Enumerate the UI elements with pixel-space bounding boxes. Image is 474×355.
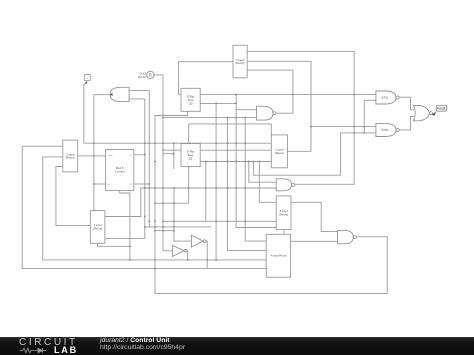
wire branch to counter input 2 xyxy=(94,183,106,185)
subcircuit B1 3 input (Recnt) xyxy=(233,45,247,78)
wire G1 input B to B6 right 2 xyxy=(105,99,145,239)
wire B1.out1 to G3 output node xyxy=(247,51,354,184)
wire FF1 loop to G4 output xyxy=(155,111,387,293)
wire FF2.left stub xyxy=(163,149,181,151)
wire loop L3 B5 to B6.left xyxy=(56,167,90,226)
wire riser x205 xyxy=(205,162,207,222)
wire rail y124 to B2.top xyxy=(189,124,272,135)
inverter I2 xyxy=(191,235,203,247)
wire I2 output down xyxy=(206,241,208,268)
Mod 6 Counter U1 xyxy=(106,150,134,191)
svg-text:(Recnt): (Recnt) xyxy=(279,212,288,216)
svg-text:2 input: 2 input xyxy=(66,152,74,156)
svg-text:(Recnt): (Recnt) xyxy=(236,61,245,65)
subcircuit B5 2 input (Recnt) xyxy=(63,140,78,172)
wire FF1.Q rail to G5 input A xyxy=(200,94,376,96)
wire B6 bottom pin xyxy=(98,243,130,246)
wire rail y221 to B3 input 2 xyxy=(163,220,276,222)
svg-text:2 input: 2 input xyxy=(275,148,283,152)
NOR gate G7 xyxy=(414,105,430,120)
subcircuit B4 4 input Recnt xyxy=(266,234,290,277)
NAND gate G4 xyxy=(338,230,354,243)
svg-text:Count: Count xyxy=(107,154,113,157)
svg-text:CLK1: CLK1 xyxy=(139,71,146,75)
CircuitLab logo xyxy=(19,338,83,353)
svg-text:BTN2: BTN2 xyxy=(382,128,389,132)
svg-text:(Recnt): (Recnt) xyxy=(66,156,75,160)
wire G6 output to G7 input B xyxy=(399,116,414,129)
svg-text:3 input: 3 input xyxy=(279,209,287,213)
wire G1 output down to B6.top xyxy=(94,95,110,211)
wire I1 output to rail xyxy=(186,251,189,260)
svg-text:2 in: 2 in xyxy=(176,56,181,59)
wire riser x188 to rail y203 xyxy=(155,124,189,203)
wire CLK1 to inverter I1 input xyxy=(154,75,172,251)
wire B1.out3 to G2 output node xyxy=(247,70,293,113)
wire B3.right to G4 input A xyxy=(291,202,338,231)
wire rail y230 stub xyxy=(155,230,174,232)
wire FF2.Q rail to B2 input 3 xyxy=(200,161,271,163)
svg-text:Counter: Counter xyxy=(115,170,125,174)
NAND gate G5 BTN1 xyxy=(376,91,396,104)
output flag PULSE xyxy=(432,105,447,116)
wire TAG1 rail to B2 input 1 xyxy=(84,84,271,143)
subcircuit B6 2 input (Recnt) xyxy=(90,211,105,244)
wire FF1.QN rail xyxy=(200,102,236,104)
subcircuit B3 3 input (Recnt) xyxy=(276,196,291,230)
wire riser to G3 input A xyxy=(249,162,276,183)
svg-text:Q0: Q0 xyxy=(189,101,193,105)
wire branch to G6 input A xyxy=(311,126,376,128)
clock source CLK1 16 kHz xyxy=(138,71,154,79)
svg-text:BTN1: BTN1 xyxy=(382,96,389,100)
wire G5 input B riser xyxy=(364,100,376,133)
wire G1 input A riser xyxy=(129,91,149,227)
inverter I1 xyxy=(172,245,184,256)
svg-text:(Recnt): (Recnt) xyxy=(275,151,284,155)
wire branch to G2 input A xyxy=(236,109,256,111)
wire B5.right to counter input 1 xyxy=(78,155,106,157)
wire riser x227 to B4 input 2 xyxy=(227,118,266,251)
wire rail y227 xyxy=(145,226,211,228)
svg-text:PULSE: PULSE xyxy=(437,107,446,111)
svg-text:(Recnt): (Recnt) xyxy=(93,227,102,231)
svg-text:2 input: 2 input xyxy=(93,223,101,227)
wire vertical x216 xyxy=(215,103,217,260)
wire counter bottom pin down xyxy=(120,190,130,260)
wire B3 bottom to B4 top xyxy=(283,230,285,235)
wire riser x174 to I2 input xyxy=(174,188,191,241)
wire counter Q2 stub xyxy=(134,183,150,185)
wire loop L1 B5 to B4 input 4 xyxy=(22,146,266,268)
D flip-flop FF2 Q1 xyxy=(181,144,200,167)
wire FF2 out to B2 input 2 xyxy=(200,149,271,151)
wire B4.right to G4 input B xyxy=(291,240,338,242)
wire loop L2 B5 to B4 input 3 xyxy=(43,157,266,260)
AND gate G1 (mirrored, output left) xyxy=(110,87,129,101)
footer bar xyxy=(0,337,474,355)
wire FF2 aux branch xyxy=(163,153,174,155)
wire B1.out2 to B2.right xyxy=(247,61,311,151)
wire B6 right 1 to G3 input B xyxy=(105,188,276,217)
NAND gate G3 xyxy=(276,179,291,191)
subcircuit B2 2 input (Recnt) xyxy=(271,135,287,168)
svg-text:4 input Recnt: 4 input Recnt xyxy=(270,254,286,258)
svg-text:16 kHz: 16 kHz xyxy=(138,75,147,79)
D flip-flop FF1 Q0 xyxy=(181,88,200,111)
svg-text:Q1: Q1 xyxy=(189,157,193,161)
wire G5 output to G7 input A xyxy=(399,97,414,110)
wire B1.left to FF1.D xyxy=(179,62,234,95)
wire riser to G6 input B xyxy=(253,133,376,175)
node tag SW1 xyxy=(84,74,91,84)
NAND gate G6 BTN2 xyxy=(376,124,396,137)
wire riser x245 to B4 input 1 xyxy=(245,118,266,242)
NAND gate G2 xyxy=(257,106,273,120)
wire rail y117 to G2 input B xyxy=(163,117,257,119)
wire FF2 aux vertical xyxy=(173,143,175,169)
wire vertical x236 to B3 input 3 xyxy=(236,95,276,228)
wire riser to B3 input 1 xyxy=(259,162,276,203)
svg-text:3 input: 3 input xyxy=(236,58,244,62)
wire counter Q1 stub xyxy=(134,154,145,156)
